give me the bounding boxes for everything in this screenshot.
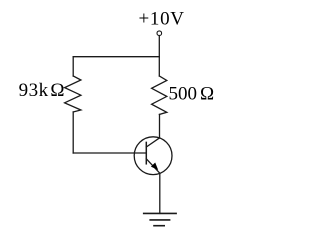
svg-text:+10V: +10V bbox=[138, 9, 184, 30]
svg-text:500Ω: 500Ω bbox=[169, 84, 215, 105]
svg-text:93kΩ: 93kΩ bbox=[19, 80, 65, 101]
